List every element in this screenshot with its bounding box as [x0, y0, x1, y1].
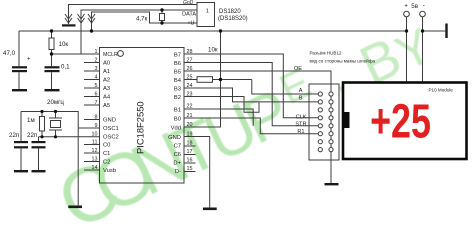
junction dot crystal top rail xtal	[54, 110, 57, 113]
crystal ZQ1 body	[51, 121, 61, 128]
connector HUB12 body	[309, 84, 339, 160]
svg-text:5в: 5в	[411, 3, 418, 10]
capacitor C3 22p plates	[14, 141, 28, 143]
svg-text:B0: B0	[174, 117, 181, 123]
junction dot B4 resistor	[219, 78, 222, 81]
junction dot MCLR node	[50, 52, 53, 55]
svg-text:DS1820: DS1820	[219, 9, 241, 15]
svg-text:C0: C0	[103, 143, 110, 149]
wire pin21 B0 to R1	[184, 118, 318, 134]
svg-text:4: 4	[95, 75, 98, 81]
junction dot rail arrow3	[90, 29, 93, 32]
svg-text:(DS18S20): (DS18S20)	[218, 16, 248, 22]
wire B4 to A	[252, 80, 318, 95]
wire DS1820 +U line	[92, 12, 198, 31]
svg-text:12: 12	[92, 148, 98, 154]
wire minus terminal down	[422, 17, 424, 83]
capacitor C4 22p plates	[32, 141, 46, 143]
wire 0.1u cap leads	[51, 54, 53, 66]
capacitor C1 47u plates	[12, 66, 27, 68]
wire 47u cap lead lower	[18, 72, 20, 89]
svg-text:B6: B6	[174, 61, 181, 67]
svg-text:B4: B4	[174, 78, 182, 84]
svg-text:вид со стороны мамы шлейфа: вид со стороны мамы шлейфа	[310, 58, 376, 64]
ground bar oscillator	[68, 206, 82, 209]
svg-text:15: 15	[187, 166, 193, 172]
svg-text:C1: C1	[103, 151, 110, 157]
svg-text:11: 11	[92, 140, 98, 146]
svg-text:+: +	[404, 3, 408, 10]
svg-text:17: 17	[187, 149, 193, 155]
junction dot rail B4 pullup	[219, 29, 222, 32]
svg-text:MCLR: MCLR	[103, 52, 118, 58]
svg-text:1: 1	[95, 49, 98, 55]
svg-text:20: 20	[187, 122, 193, 128]
sensor cable arrow 3	[88, 14, 95, 23]
svg-text:D+: D+	[173, 161, 181, 167]
wire 1M resistor leads	[41, 112, 43, 117]
ground bar pin19	[203, 208, 217, 211]
resistor R 10k B4 body	[197, 77, 213, 83]
svg-text:A1: A1	[103, 69, 110, 75]
wire pin27 B6 to STR	[184, 63, 318, 126]
svg-text:22п: 22п	[9, 132, 19, 139]
wire plus terminal down	[406, 17, 408, 83]
ground bar sensor arrow1	[62, 24, 76, 26]
svg-text:B: B	[299, 96, 303, 102]
sensor cable arrow 1	[65, 5, 72, 25]
junction dot minus wire	[421, 29, 424, 32]
svg-text:C6: C6	[174, 152, 181, 158]
svg-text:20мгц: 20мгц	[47, 99, 64, 106]
ground bar under C4	[32, 170, 46, 172]
ground bar under C2	[45, 89, 60, 91]
connector pin circles col2	[329, 92, 333, 152]
wire 22p cap1 lead	[20, 112, 22, 142]
svg-text:1м: 1м	[27, 117, 35, 124]
svg-text:A5: A5	[103, 103, 110, 109]
svg-text:Vdd: Vdd	[171, 126, 181, 132]
svg-text:B3: B3	[174, 87, 181, 93]
svg-text:-: -	[423, 2, 425, 9]
junction dot +U pullup bottom	[160, 21, 163, 24]
wire OSC1 stub	[78, 127, 99, 129]
svg-text:CLK: CLK	[296, 114, 307, 120]
svg-text:0,1: 0,1	[61, 64, 70, 71]
svg-text:A4: A4	[103, 95, 111, 101]
svg-text:DATA: DATA	[182, 12, 196, 18]
ground bar connector	[325, 183, 339, 185]
terminal circle plus	[404, 11, 410, 17]
terminal circle minus	[420, 11, 426, 17]
svg-text:7: 7	[95, 100, 98, 106]
svg-text:+: +	[27, 56, 31, 63]
wire 4.7k resistor leads	[161, 10, 163, 14]
svg-text:3: 3	[95, 66, 98, 72]
wire pin23 B2 zigzag	[184, 97, 259, 113]
wire crystal top rail to OSC1	[21, 112, 78, 206]
svg-text:B2: B2	[174, 95, 181, 101]
svg-text:8: 8	[95, 115, 98, 121]
svg-text:A0: A0	[103, 61, 110, 67]
chip pin stubs left 8-14	[84, 119, 100, 121]
wire DS1820 DATA line	[81, 10, 198, 54]
chip pin names left	[103, 52, 119, 174]
DS1820 U2 body	[197, 3, 215, 27]
chip pin stubs right 18-15	[184, 145, 196, 147]
wire crystal bottom rail to OSC2	[39, 136, 100, 138]
resistor R 10k MCLR body	[49, 38, 54, 50]
wire DS1820 GND line	[69, 5, 198, 25]
svg-text:R1: R1	[297, 129, 304, 135]
svg-text:Vusb: Vusb	[103, 168, 116, 174]
svg-text:P10 Module: P10 Module	[428, 88, 453, 93]
ground bar under C3	[14, 170, 28, 172]
wire minus to ground bar	[423, 30, 446, 32]
resistor R 4.7k body	[160, 14, 165, 21]
svg-text:16: 16	[187, 158, 193, 164]
junction dot rail plus wire	[405, 29, 408, 32]
svg-text:26: 26	[187, 66, 193, 72]
P10 module	[343, 83, 467, 160]
svg-text:OSC1: OSC1	[103, 126, 119, 132]
junction dot bottom rail cap2	[40, 135, 43, 138]
wire 47u cap to rail	[18, 31, 20, 66]
capacitor C2 0.1u plates	[45, 66, 60, 68]
junction dot bottom rail xtal	[54, 135, 57, 138]
junction dot crystal top rail r1M	[40, 110, 43, 113]
crystal ZQ1 plates	[49, 117, 62, 119]
svg-text:OE: OE	[294, 66, 302, 72]
svg-text:14: 14	[92, 165, 98, 171]
svg-text:25: 25	[187, 75, 193, 81]
svg-text:OSC2: OSC2	[103, 135, 119, 141]
watermark CONTUPE.BY	[45, 19, 440, 240]
svg-text:18: 18	[187, 141, 193, 147]
svg-text:13: 13	[92, 157, 98, 163]
signal labels	[294, 66, 307, 135]
svg-text:+25: +25	[370, 94, 431, 149]
svg-text:GND: GND	[103, 118, 116, 124]
svg-text:10к: 10к	[208, 47, 218, 54]
wire pin26 B5 to OE	[184, 71, 331, 92]
svg-text:28: 28	[187, 49, 193, 55]
MCLR inversion circle	[118, 51, 124, 57]
svg-text:GND: GND	[168, 135, 181, 141]
svg-text:9: 9	[95, 123, 98, 129]
chip pin numbers left	[92, 49, 98, 171]
svg-text:5: 5	[95, 83, 98, 89]
svg-text:22: 22	[187, 104, 193, 110]
svg-text:21: 21	[187, 113, 193, 119]
ground bar minus terminal vertical	[445, 24, 447, 39]
svg-text:GnD: GnD	[183, 0, 194, 6]
svg-text:6: 6	[95, 92, 98, 98]
svg-text:10: 10	[92, 132, 98, 138]
chip pin stubs left 2-7	[84, 62, 100, 64]
wire pin25 B4 leads	[184, 79, 197, 81]
svg-text:1: 1	[206, 9, 209, 15]
svg-text:B7: B7	[174, 53, 181, 59]
P10 module connector tab	[343, 112, 350, 128]
svg-text:C2: C2	[103, 160, 110, 166]
chip U1 PIC18F2550 body	[100, 48, 185, 184]
wire B4 pullup vertical Vdd	[184, 31, 221, 127]
wire crystal stubs	[55, 112, 57, 119]
junction dot DATA pullup top	[160, 8, 163, 11]
svg-text:+U: +U	[187, 21, 194, 27]
svg-text:47,0: 47,0	[3, 50, 16, 57]
svg-text:B5: B5	[174, 70, 181, 76]
ground bar under C1	[12, 89, 27, 91]
svg-text:2: 2	[95, 58, 98, 64]
svg-text:D-: D-	[175, 169, 181, 175]
wire pin28 B7 to CLK	[184, 54, 318, 118]
connector annotation	[310, 51, 376, 64]
svg-text:4,7к: 4,7к	[136, 16, 148, 23]
wire 10k MCLR pullup leads	[51, 31, 53, 38]
svg-text:22п: 22п	[27, 132, 37, 139]
svg-text:A2: A2	[103, 78, 110, 84]
svg-text:A: A	[299, 88, 303, 94]
svg-text:23: 23	[187, 92, 193, 98]
wire pin22 B1	[184, 109, 253, 126]
svg-text:Разъём HUB12: Разъём HUB12	[310, 51, 343, 56]
svg-text:A3: A3	[103, 86, 110, 92]
svg-text:STR: STR	[295, 121, 306, 127]
wire pin19 GND down	[184, 137, 210, 208]
junction dot rail 10k	[50, 29, 53, 32]
wire MCLR node	[52, 53, 100, 55]
wire connector col2 ground bus	[330, 92, 332, 183]
svg-text:10к: 10к	[59, 41, 69, 48]
svg-text:19: 19	[187, 132, 193, 138]
resistor R 1M body	[40, 117, 45, 132]
svg-text:C7: C7	[174, 144, 181, 150]
sensor cable arrow 2	[78, 14, 85, 23]
svg-text:B1: B1	[174, 108, 181, 114]
svg-text:24: 24	[187, 83, 193, 89]
wire pin24 B3 to B	[184, 88, 318, 102]
svg-text:27: 27	[187, 58, 193, 64]
connector pin circles col1	[318, 92, 322, 152]
wire 22p cap2 lead	[38, 137, 40, 141]
wire +5V rail	[19, 30, 407, 32]
svg-text:PIC18F2550: PIC18F2550	[135, 101, 146, 154]
chip pin names right	[168, 53, 182, 176]
chip pin numbers right	[187, 49, 193, 172]
